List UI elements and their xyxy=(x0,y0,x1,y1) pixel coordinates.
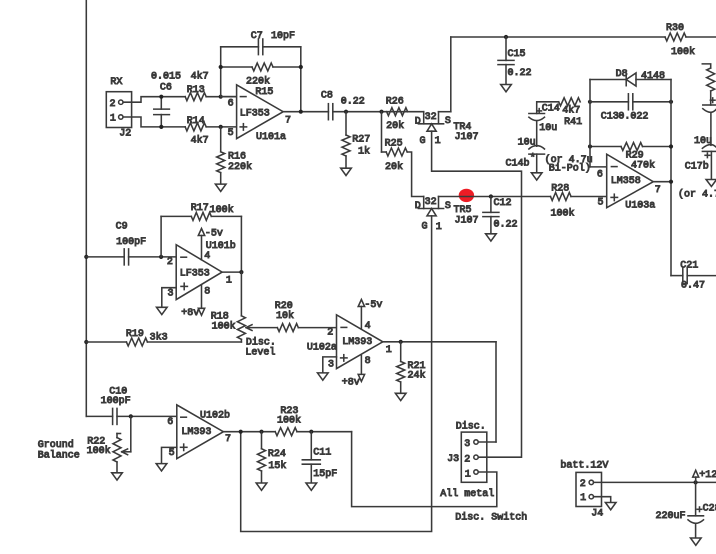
svg-text:All metal: All metal xyxy=(440,488,494,500)
pin 8 label U101b xyxy=(204,286,210,297)
resistor R28 xyxy=(551,193,572,201)
minus U102a xyxy=(341,326,347,328)
wire R19 left xyxy=(86,341,126,343)
supply -5v U102a xyxy=(358,300,382,329)
capacitor C12 xyxy=(483,197,499,234)
svg-text:G: G xyxy=(422,221,428,232)
label R27 value xyxy=(358,146,370,158)
plus mark C28 xyxy=(697,507,702,512)
svg-text:24k: 24k xyxy=(408,369,426,381)
wire R23 right xyxy=(297,431,352,433)
pin 7 label U102b xyxy=(225,434,231,445)
svg-text:J2: J2 xyxy=(119,129,131,140)
svg-text:1k: 1k xyxy=(358,146,370,158)
label R21 value xyxy=(408,369,426,381)
svg-text:S: S xyxy=(445,116,451,127)
pin 1 of J3 xyxy=(465,469,478,480)
node U101b output xyxy=(239,270,243,274)
label R17 xyxy=(191,203,209,214)
capacitor C17b xyxy=(702,145,716,152)
resistor R13 xyxy=(185,93,206,101)
wire C10 right xyxy=(117,415,177,417)
connector J4 xyxy=(576,472,602,506)
svg-text:U103a: U103a xyxy=(625,201,655,212)
label C6 value xyxy=(151,72,181,83)
label Ground xyxy=(38,439,74,451)
label R24 xyxy=(268,449,286,460)
wire U101b output xyxy=(222,271,241,273)
svg-text:(or 4.7u: (or 4.7u xyxy=(678,189,716,201)
svg-text:Ground: Ground xyxy=(38,439,74,451)
label Balance xyxy=(38,449,80,461)
ground C28 xyxy=(691,538,702,545)
svg-text:100k: 100k xyxy=(551,208,575,220)
wiper R18 xyxy=(246,325,277,331)
pin 8 label U102a xyxy=(365,356,371,367)
wire top rail right xyxy=(686,36,716,38)
label R30 xyxy=(666,23,684,34)
svg-text:C8: C8 xyxy=(321,91,333,102)
pin 6 label U103a xyxy=(597,169,603,180)
pin 2 of J3 xyxy=(464,454,478,465)
svg-text:8: 8 xyxy=(204,286,210,297)
wire TR5 source xyxy=(439,196,551,198)
svg-text:3: 3 xyxy=(464,439,470,450)
label TR4 D xyxy=(415,116,421,127)
capacitor C6 xyxy=(154,97,170,127)
wire J4 pin2 +12 rail xyxy=(594,481,716,483)
pin 2 label U102a xyxy=(327,328,333,339)
label TR4 pin1 xyxy=(435,136,441,147)
ground J4 pin1 xyxy=(605,503,616,510)
label 220uF xyxy=(656,511,686,522)
label C17 value xyxy=(694,136,712,147)
svg-text:6: 6 xyxy=(597,169,603,180)
label R41 value xyxy=(562,104,580,116)
label C21 value xyxy=(681,281,705,292)
svg-text:0.47: 0.47 xyxy=(681,281,705,292)
resistor right column xyxy=(707,68,715,91)
label R28 xyxy=(551,184,569,195)
wire J2 pin1 to C6 bottom xyxy=(123,117,185,127)
pin 7 label U103a xyxy=(655,185,661,196)
svg-text:J107: J107 xyxy=(455,216,479,227)
svg-text:C17b: C17b xyxy=(685,160,709,172)
resistor R18 xyxy=(237,272,245,342)
wire J2 pin2 to C6 top xyxy=(123,97,185,103)
svg-text:4k7: 4k7 xyxy=(191,135,209,147)
svg-text:R41: R41 xyxy=(564,117,582,128)
label R18 xyxy=(211,311,229,322)
svg-text:C12: C12 xyxy=(494,198,512,209)
wire C14b to ground xyxy=(536,154,538,173)
node R17 bottom xyxy=(159,255,163,259)
node +12 xyxy=(694,480,698,484)
capacitor C15 xyxy=(498,37,514,85)
wire J3 pin3 xyxy=(478,441,496,443)
svg-text:TR5: TR5 xyxy=(454,205,472,216)
label J2 xyxy=(119,129,131,140)
pin 6 label U101a xyxy=(228,98,234,109)
plus U102b xyxy=(181,444,187,450)
label R15 value xyxy=(246,76,270,88)
node R29 left xyxy=(588,144,592,148)
label R23 value xyxy=(277,415,301,427)
svg-text:2: 2 xyxy=(167,257,173,268)
resistor R15 xyxy=(252,63,273,71)
svg-text:S: S xyxy=(445,201,451,212)
wire C28 to ground xyxy=(695,524,697,538)
diode D8 4148 xyxy=(626,73,636,86)
node U103a output xyxy=(669,180,673,184)
pin 3 label U101b xyxy=(168,289,174,300)
label C21 xyxy=(680,261,698,272)
capacitor C11 xyxy=(302,432,320,483)
svg-text:R30: R30 xyxy=(666,23,684,34)
svg-text:R19: R19 xyxy=(126,329,144,340)
wiper R22 xyxy=(122,449,131,455)
ground C12 xyxy=(486,234,497,241)
svg-text:C14: C14 xyxy=(542,103,560,114)
label LM393 U102b xyxy=(181,427,211,438)
svg-text:D: D xyxy=(415,201,421,212)
supply -5v U101b xyxy=(198,229,223,260)
svg-text:R25: R25 xyxy=(385,138,403,149)
svg-text:0.22: 0.22 xyxy=(494,219,518,230)
resistor R29 xyxy=(621,143,643,151)
svg-text:20k: 20k xyxy=(385,161,403,173)
label TR5 S xyxy=(445,201,451,212)
svg-text:4k7: 4k7 xyxy=(191,71,209,83)
plus U103a xyxy=(611,194,617,200)
wire U103a output xyxy=(653,181,671,183)
svg-text:U101a: U101a xyxy=(256,132,286,143)
svg-text:R17: R17 xyxy=(191,203,209,214)
svg-text:R28: R28 xyxy=(551,184,569,195)
svg-text:220k: 220k xyxy=(246,76,270,88)
resistor R30 xyxy=(665,33,686,41)
wire D8 left xyxy=(590,79,626,81)
svg-text:0.22: 0.22 xyxy=(508,68,532,79)
svg-text:100k: 100k xyxy=(210,204,234,216)
resistor R22 xyxy=(113,434,121,473)
label U103a xyxy=(625,201,655,212)
label R19 value xyxy=(150,331,168,343)
wire R28 to U103a xyxy=(571,196,607,198)
wire U101a output xyxy=(283,111,328,113)
svg-text:J3: J3 xyxy=(447,454,459,465)
label R20 value xyxy=(276,310,294,322)
pin 2 label U101b xyxy=(167,257,173,268)
label TR4 xyxy=(453,122,471,133)
pin 2 of J4 xyxy=(580,479,594,490)
capacitor C7 xyxy=(258,39,262,55)
svg-text:6: 6 xyxy=(167,417,173,428)
resistor R17 xyxy=(191,212,211,220)
label C8 value xyxy=(341,97,365,108)
label C10 value xyxy=(101,396,131,407)
resistor R23 xyxy=(275,428,297,436)
transistor TR5 J107 xyxy=(418,197,443,216)
wire D8 right xyxy=(636,79,671,81)
wire R17 right xyxy=(211,215,241,217)
svg-text:C28: C28 xyxy=(703,503,716,514)
node R41 C13 junction xyxy=(588,100,592,104)
svg-text:*: * xyxy=(530,153,536,165)
svg-text:U102b: U102b xyxy=(200,410,230,422)
node R13 output xyxy=(219,95,223,99)
wire C7 top left xyxy=(221,46,259,48)
node output riser xyxy=(299,110,303,114)
resistor R20 xyxy=(277,324,298,332)
node R27 top xyxy=(344,110,348,114)
wire U102b pin5 xyxy=(162,447,177,463)
capacitor C17 xyxy=(703,105,716,112)
wire U103a pin6 xyxy=(590,102,607,167)
resistor R27 xyxy=(342,112,350,169)
svg-text:C6: C6 xyxy=(160,82,172,93)
svg-text:1: 1 xyxy=(436,222,442,233)
label C7 value xyxy=(271,31,295,42)
svg-text:LM393: LM393 xyxy=(181,427,211,438)
label J3 xyxy=(447,454,459,465)
star mark C14b xyxy=(530,153,536,165)
supply +8v U101b xyxy=(181,285,204,319)
svg-text:100k: 100k xyxy=(277,415,301,427)
label TR5 xyxy=(454,205,472,216)
label TR5 pins 32 xyxy=(425,197,437,208)
label R29 value xyxy=(631,160,655,172)
wire J4 pin1 xyxy=(594,497,611,503)
wire R29 right xyxy=(643,146,672,148)
label C13 value xyxy=(618,112,648,123)
pin 4 label U102a xyxy=(365,321,371,332)
label C14b note2 xyxy=(549,162,591,174)
svg-text:220uF: 220uF xyxy=(656,511,686,522)
ground U102b pin5 xyxy=(156,464,167,471)
pin 1 of J4 xyxy=(580,493,593,504)
svg-text:0.022: 0.022 xyxy=(618,112,648,123)
svg-text:2: 2 xyxy=(327,328,333,339)
wire left input rail xyxy=(85,0,87,416)
svg-text:C15: C15 xyxy=(508,49,526,60)
svg-text:C14b: C14b xyxy=(506,157,530,169)
svg-text:Level: Level xyxy=(245,346,275,358)
plus mark C17 xyxy=(710,98,715,103)
svg-text:R24: R24 xyxy=(268,449,286,460)
label C14b value xyxy=(518,137,536,148)
wire C21 left xyxy=(671,275,683,277)
wire R20 right xyxy=(298,327,336,329)
wire R29 left xyxy=(590,146,621,148)
svg-text:10pF: 10pF xyxy=(271,31,295,42)
svg-text:LM358: LM358 xyxy=(611,176,641,187)
label Disc. J3 xyxy=(456,421,486,433)
label batt.12V xyxy=(560,460,608,472)
label All metal xyxy=(440,488,494,500)
svg-text:C13: C13 xyxy=(601,112,619,123)
label C14b note1 xyxy=(545,154,593,166)
wire C13 right xyxy=(633,101,671,103)
svg-text:+12: +12 xyxy=(699,470,716,481)
wire R15 left xyxy=(221,66,252,68)
label U102a xyxy=(307,342,337,353)
ground R22 xyxy=(112,473,123,480)
label C9 value xyxy=(116,237,146,248)
label RX xyxy=(110,77,122,88)
svg-text:10k: 10k xyxy=(276,310,294,322)
svg-text:R27: R27 xyxy=(352,135,370,146)
label C14b xyxy=(506,157,530,169)
wire R19 right xyxy=(147,341,241,343)
wire C17 to C17b xyxy=(710,113,712,146)
svg-text:C21: C21 xyxy=(680,261,698,272)
label Disc. Switch xyxy=(455,512,527,524)
label R25 value xyxy=(385,161,403,173)
wire R17 riser right xyxy=(240,216,242,272)
node R26 R25 branch xyxy=(379,110,383,114)
pin 5 label U101a xyxy=(228,128,234,139)
label R13 xyxy=(187,85,205,96)
svg-text:J107: J107 xyxy=(455,132,479,143)
svg-text:0.22: 0.22 xyxy=(341,97,365,108)
svg-text:U102a: U102a xyxy=(307,342,337,353)
node C11 top xyxy=(309,430,313,434)
svg-text:2: 2 xyxy=(110,99,116,110)
svg-text:8: 8 xyxy=(365,356,371,367)
pin 3 label U102a xyxy=(328,359,334,370)
wire U101b pin3 xyxy=(162,288,176,308)
svg-text:10u: 10u xyxy=(539,123,557,134)
svg-text:+8v: +8v xyxy=(342,378,360,389)
capacitor C13 xyxy=(628,94,632,110)
svg-text:LM393: LM393 xyxy=(342,337,372,348)
svg-text:220k: 220k xyxy=(228,161,252,173)
wire TR4 gate xyxy=(432,131,522,457)
node bottom rail xyxy=(239,430,243,434)
pin 1 of J2 xyxy=(110,114,123,125)
svg-text:4k7: 4k7 xyxy=(562,104,580,116)
label TR4 G xyxy=(420,136,426,147)
node C9 rail xyxy=(84,255,88,259)
wire C8 to R26 xyxy=(333,111,424,113)
label R16 xyxy=(228,151,246,162)
label C9 xyxy=(116,221,128,232)
svg-text:6: 6 xyxy=(228,98,234,109)
plus U101a xyxy=(240,124,246,130)
wire C13 left xyxy=(590,101,628,103)
label R30 value xyxy=(671,46,695,58)
wire C10 corner xyxy=(86,415,112,417)
node C6 bottom xyxy=(159,125,163,129)
node R15 left xyxy=(219,65,223,69)
svg-text:1: 1 xyxy=(386,345,392,356)
label C10 xyxy=(109,387,127,398)
label R15 xyxy=(255,87,273,98)
svg-text:RX: RX xyxy=(110,77,122,88)
ground U101b pin3 xyxy=(157,307,168,314)
capacitor C21 xyxy=(683,268,687,284)
wire U102b output xyxy=(223,431,275,433)
label C11 xyxy=(313,448,331,459)
label R16 value xyxy=(228,161,252,173)
pin 5 label U103a xyxy=(598,198,604,209)
pin 7 label U101a xyxy=(285,116,291,127)
op-amp U101a xyxy=(237,85,284,139)
node R14 output xyxy=(219,125,223,129)
svg-text:C11: C11 xyxy=(313,448,331,459)
label R41 xyxy=(564,117,582,128)
svg-text:7: 7 xyxy=(655,185,661,196)
label R28 value xyxy=(551,208,575,220)
svg-text:Disc. Switch: Disc. Switch xyxy=(455,512,527,524)
svg-text:D8: D8 xyxy=(616,69,628,80)
op-amp U103a xyxy=(607,154,654,208)
plus U102a xyxy=(341,355,347,361)
capacitor C14b xyxy=(529,146,545,155)
label R18 value xyxy=(212,320,236,332)
wire R25 riser xyxy=(381,112,383,152)
wire top rail xyxy=(451,36,665,38)
label TR5 G xyxy=(422,221,428,232)
svg-text:4: 4 xyxy=(204,251,210,262)
svg-text:G: G xyxy=(420,136,426,147)
node R24 top xyxy=(259,430,263,434)
label C14 xyxy=(542,103,560,114)
wire pin6 stub xyxy=(221,96,237,98)
capacitor C28 xyxy=(688,482,704,523)
svg-text:Bi-Pol): Bi-Pol) xyxy=(549,162,591,174)
wire C7 riser left xyxy=(220,47,222,97)
label C8 xyxy=(321,91,333,102)
wire C7 top right xyxy=(263,46,301,48)
transistor TR4 J107 xyxy=(418,112,450,132)
svg-text:7: 7 xyxy=(285,116,291,127)
label LM393 U102a xyxy=(342,337,372,348)
label C13 xyxy=(601,112,619,123)
capacitor C9 xyxy=(124,249,128,265)
svg-text:1: 1 xyxy=(580,493,586,504)
label R25 xyxy=(385,138,403,149)
label C12 value xyxy=(494,219,518,230)
svg-text:100k: 100k xyxy=(671,46,695,58)
label LF353 U101b xyxy=(180,268,210,279)
wire R14 to pin5 xyxy=(206,126,236,128)
label TR5 J107 xyxy=(455,216,479,227)
label D8 value xyxy=(641,71,665,82)
label D8 xyxy=(616,69,628,80)
ground R24 xyxy=(256,483,267,490)
svg-text:C7: C7 xyxy=(251,31,263,42)
svg-text:-5v: -5v xyxy=(364,300,382,311)
svg-text:Balance: Balance xyxy=(38,449,80,461)
svg-text:R26: R26 xyxy=(386,96,404,107)
label R21 xyxy=(408,361,426,372)
wire C9 right xyxy=(129,256,177,258)
plus mark C17b xyxy=(705,153,710,158)
svg-text:3k3: 3k3 xyxy=(150,331,168,343)
label C15 value xyxy=(508,68,532,79)
label U101b xyxy=(206,240,236,252)
node C13 right xyxy=(669,100,673,104)
svg-text:2: 2 xyxy=(464,454,470,465)
resistor R19 xyxy=(126,338,147,346)
svg-text:7: 7 xyxy=(225,434,231,445)
label C11 value xyxy=(313,469,337,480)
minus U101b xyxy=(181,256,187,258)
svg-text:C9: C9 xyxy=(116,221,128,232)
label U101a xyxy=(256,132,286,143)
